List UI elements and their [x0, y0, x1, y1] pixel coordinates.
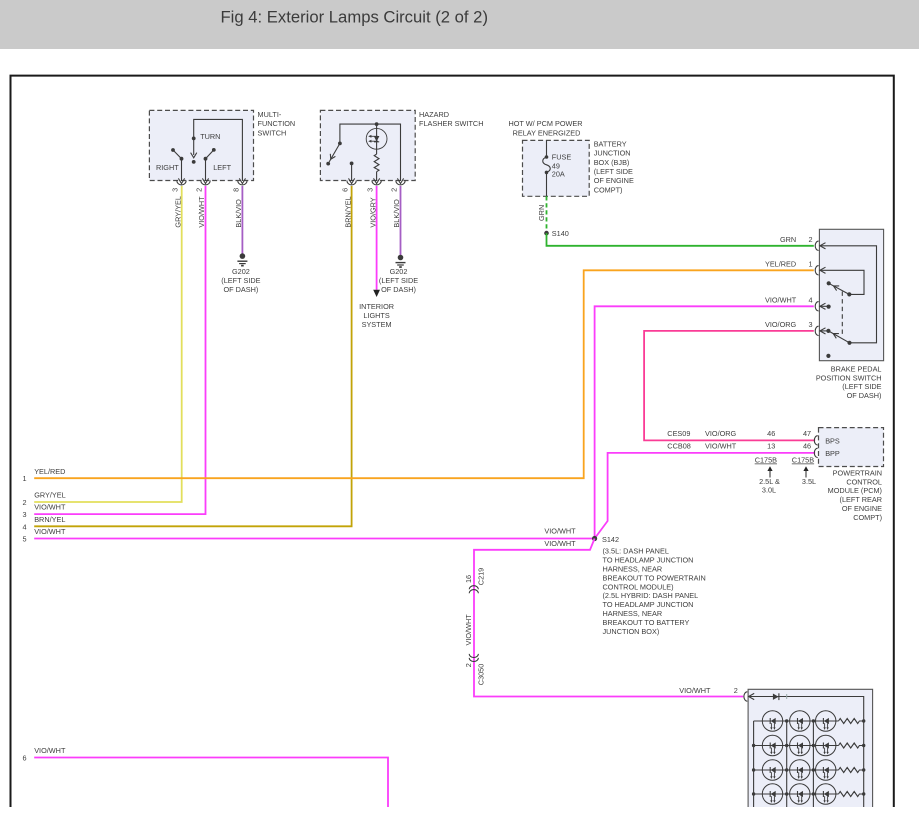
- svg-text:VIO/WHT: VIO/WHT: [705, 441, 737, 450]
- svg-text:CCB08: CCB08: [667, 441, 691, 450]
- LED row 2 wire: [754, 745, 839, 747]
- connector C175B (3.5L): [792, 456, 816, 486]
- svg-text:S140: S140: [552, 229, 569, 238]
- svg-text:6: 6: [341, 188, 350, 192]
- wire VIO/WHT from BPS pin 4 to S142: [595, 306, 814, 538]
- svg-text:BATTERY: BATTERY: [594, 139, 627, 148]
- hazard indicator LED: [366, 124, 387, 154]
- title bar: [0, 0, 919, 49]
- multi-function switch internal wiring: [191, 119, 246, 183]
- svg-text:VIO/WHT: VIO/WHT: [679, 686, 711, 695]
- tail lamp assembly box: [748, 689, 873, 807]
- svg-text:HARNESS, NEAR: HARNESS, NEAR: [603, 609, 663, 618]
- svg-text:HOT W/ PCM POWER: HOT W/ PCM POWER: [508, 119, 582, 128]
- svg-text:MODULE (PCM): MODULE (PCM): [828, 486, 882, 495]
- svg-text:GRN: GRN: [537, 205, 546, 221]
- svg-text:HARNESS, NEAR: HARNESS, NEAR: [603, 564, 663, 573]
- svg-text:OF DASH): OF DASH): [223, 285, 258, 294]
- node 3 label VIO/WHT: [22, 503, 66, 519]
- svg-text:BPP: BPP: [825, 449, 840, 458]
- svg-text:46: 46: [803, 441, 811, 450]
- BPS pin 4: [815, 302, 825, 311]
- powertrain control module box: [819, 428, 884, 522]
- svg-text:VIO/WHT: VIO/WHT: [197, 196, 206, 228]
- wire VIO/GRY from hazard pin 3: [368, 186, 377, 290]
- resistor R4: [839, 792, 864, 797]
- LED row 3 col 1: [762, 760, 782, 780]
- svg-text:2: 2: [22, 498, 26, 507]
- svg-text:3: 3: [22, 510, 26, 519]
- svg-text:CONTROL MODULE): CONTROL MODULE): [603, 582, 674, 591]
- svg-text:BLK/VIO: BLK/VIO: [234, 199, 243, 228]
- svg-text:COMPT): COMPT): [594, 185, 623, 194]
- tail lamp feed wire: [750, 697, 864, 808]
- svg-text:2: 2: [195, 188, 204, 192]
- column bus 1: [786, 721, 788, 807]
- svg-text:BREAKOUT TO POWERTRAIN: BREAKOUT TO POWERTRAIN: [603, 573, 706, 582]
- svg-text:YEL/RED: YEL/RED: [34, 467, 65, 476]
- svg-text:1: 1: [22, 474, 26, 483]
- svg-text:3: 3: [808, 320, 812, 329]
- multi-function switch pin 8: [232, 181, 248, 192]
- svg-text:OF ENGINE: OF ENGINE: [842, 504, 882, 513]
- BPS pin 2: [815, 241, 825, 250]
- svg-text:S142: S142: [602, 535, 619, 544]
- LED row 4 col 1: [762, 784, 782, 804]
- junction dots row 4: [752, 792, 866, 795]
- svg-text:(3.5L: DASH PANEL: (3.5L: DASH PANEL: [603, 547, 669, 556]
- svg-text:SYSTEM: SYSTEM: [362, 320, 392, 329]
- wire BLK/VIO from hazard pin 2: [392, 186, 401, 258]
- LED row 2 col 2: [790, 735, 810, 755]
- svg-text:TO HEADLAMP JUNCTION: TO HEADLAMP JUNCTION: [603, 600, 694, 609]
- turn switch LEFT contact: [202, 148, 231, 184]
- wire VIO/WHT from S142 to PCM BPP pin: [595, 441, 816, 538]
- svg-text:VIO/WHT: VIO/WHT: [765, 296, 797, 305]
- svg-text:VIO/WHT: VIO/WHT: [34, 503, 66, 512]
- svg-text:LIGHTS: LIGHTS: [363, 311, 389, 320]
- svg-text:POWERTRAIN: POWERTRAIN: [833, 468, 882, 477]
- BPS internal wiring: [821, 246, 877, 358]
- multi-function switch box: [149, 110, 295, 181]
- wire VIO/WHT (circuit 6): [22, 746, 388, 807]
- svg-text:(LEFT REAR: (LEFT REAR: [840, 495, 882, 504]
- hazard switch center contact: [349, 162, 355, 184]
- svg-text:BLK/VIO: BLK/VIO: [392, 199, 401, 228]
- node 2 label GRY/YEL: [22, 491, 65, 507]
- hazard switch pin 2: [390, 181, 406, 192]
- fuse 49 20A: [543, 140, 572, 196]
- svg-text:GRY/YEL: GRY/YEL: [173, 196, 182, 228]
- LED row 1 col 3: [816, 711, 836, 731]
- wire YEL/RED (circuit 1): [22, 260, 813, 484]
- ground G202 (left): [221, 253, 260, 294]
- splice S140: [544, 229, 569, 238]
- svg-text:SWITCH: SWITCH: [258, 128, 287, 137]
- S142 location note: [603, 547, 706, 637]
- svg-text:5: 5: [22, 535, 26, 544]
- svg-text:BOX (BJB): BOX (BJB): [594, 158, 630, 167]
- wire VIO/WHT (circuit 5) to S142: [22, 527, 592, 544]
- svg-text:OF ENGINE: OF ENGINE: [594, 176, 634, 185]
- svg-text:COMPT): COMPT): [853, 513, 882, 522]
- svg-text:(LEFT SIDE: (LEFT SIDE: [379, 276, 418, 285]
- svg-text:TO HEADLAMP JUNCTION: TO HEADLAMP JUNCTION: [603, 555, 694, 564]
- svg-text:RIGHT: RIGHT: [156, 163, 179, 172]
- svg-text:(LEFT SIDE: (LEFT SIDE: [594, 167, 633, 176]
- connector C175B (2.5L): [755, 456, 780, 495]
- svg-text:20A: 20A: [552, 170, 565, 179]
- junction dots row 3: [752, 768, 866, 771]
- resistor R1: [839, 719, 864, 724]
- LED row 4 wire: [754, 793, 839, 795]
- LED row 2 col 1: [762, 735, 782, 755]
- LED row 2 col 3: [816, 735, 836, 755]
- resistor R3: [839, 768, 864, 773]
- svg-text:8: 8: [232, 188, 241, 192]
- hazard flasher switch box: [320, 110, 483, 181]
- svg-text:13: 13: [767, 441, 775, 450]
- svg-text:C175B: C175B: [792, 456, 814, 465]
- svg-text:(LEFT SIDE: (LEFT SIDE: [842, 382, 881, 391]
- junction dots row 2: [752, 744, 866, 747]
- svg-text:VIO/WHT: VIO/WHT: [544, 539, 576, 548]
- resistor R2: [839, 743, 864, 748]
- svg-text:OF DASH): OF DASH): [381, 285, 416, 294]
- svg-text:BRN/YEL: BRN/YEL: [343, 196, 352, 227]
- PCM pin BPS: [814, 436, 840, 446]
- svg-text:(LEFT SIDE: (LEFT SIDE: [221, 276, 260, 285]
- svg-text:VIO/ORG: VIO/ORG: [765, 320, 797, 329]
- turn switch RIGHT contact: [156, 148, 185, 184]
- svg-text:BREAKOUT TO BATTERY: BREAKOUT TO BATTERY: [603, 618, 690, 627]
- svg-text:3: 3: [366, 188, 375, 192]
- wire VIO/WHT from MFS pin 2: [34, 186, 206, 514]
- svg-text:C3050: C3050: [476, 664, 485, 686]
- PCM pin BPP: [814, 448, 840, 458]
- svg-text:G202: G202: [390, 267, 408, 276]
- junction tick on feed wire: [786, 694, 788, 699]
- svg-text:YEL/RED: YEL/RED: [765, 260, 796, 269]
- svg-text:Fig 4: Exterior Lamps Circuit: Fig 4: Exterior Lamps Circuit (2 of 2): [221, 9, 489, 27]
- BPS pin 1: [815, 266, 825, 275]
- svg-text:6: 6: [22, 754, 26, 763]
- wire BRN/YEL from hazard pin 6: [34, 186, 352, 526]
- BPS pin 3: [815, 326, 825, 335]
- svg-text:FUNCTION: FUNCTION: [258, 119, 296, 128]
- tail lamp pin labels: [679, 686, 738, 695]
- left bus of LED array: [753, 721, 755, 807]
- svg-text:2: 2: [808, 235, 812, 244]
- column bus 2: [812, 721, 814, 807]
- LED row 3 col 2: [790, 760, 810, 780]
- svg-text:POSITION SWITCH: POSITION SWITCH: [816, 373, 882, 382]
- svg-text:C219: C219: [476, 568, 485, 585]
- svg-text:OF DASH): OF DASH): [847, 391, 882, 400]
- connector C3050: [464, 654, 485, 685]
- battery junction box: [523, 139, 634, 196]
- svg-text:FLASHER SWITCH: FLASHER SWITCH: [419, 119, 483, 128]
- diode D1: [773, 693, 779, 700]
- LED row 1 wire: [754, 720, 839, 722]
- LED row 1 col 2: [790, 711, 810, 731]
- arrow to interior lights system: [359, 290, 394, 329]
- svg-text:3.5L: 3.5L: [802, 477, 816, 486]
- hot label: [508, 119, 582, 137]
- svg-text:47: 47: [803, 429, 811, 438]
- svg-text:LEFT: LEFT: [213, 163, 231, 172]
- svg-text:VIO/WHT: VIO/WHT: [464, 614, 473, 646]
- hazard flasher resistor: [374, 154, 380, 184]
- connector C219: [464, 568, 485, 593]
- svg-text:GRY/YEL: GRY/YEL: [34, 491, 65, 500]
- wire GRN dashed below fuse: [537, 196, 546, 233]
- svg-text:16: 16: [464, 575, 473, 583]
- svg-text:RELAY ENERGIZED: RELAY ENERGIZED: [513, 128, 581, 137]
- LED row 4 col 2: [790, 784, 810, 804]
- svg-text:VIO/WHT: VIO/WHT: [544, 527, 576, 536]
- svg-text:MULTI-: MULTI-: [258, 110, 282, 119]
- svg-text:CES09: CES09: [667, 429, 690, 438]
- svg-text:3.0L: 3.0L: [762, 486, 776, 495]
- ground G202 (right): [379, 255, 418, 294]
- svg-text:JUNCTION BOX): JUNCTION BOX): [603, 627, 660, 636]
- svg-text:G202: G202: [232, 267, 250, 276]
- svg-text:INTERIOR: INTERIOR: [359, 302, 394, 311]
- svg-text:TURN: TURN: [200, 132, 220, 141]
- wire BLK/VIO from MFS pin 8: [234, 186, 243, 256]
- wire VIO/ORG from BPS pin 3 to PCM BPS pin: [644, 320, 815, 440]
- wire GRN to brake pedal switch pin 2: [547, 233, 814, 246]
- svg-text:2: 2: [734, 686, 738, 695]
- svg-text:3: 3: [171, 188, 180, 192]
- hazard switch pin 6: [341, 181, 357, 192]
- svg-text:FUSE: FUSE: [552, 153, 572, 162]
- svg-text:GRN: GRN: [780, 235, 796, 244]
- svg-text:VIO/GRY: VIO/GRY: [368, 197, 377, 227]
- svg-text:1: 1: [808, 260, 812, 269]
- node 4 label BRN/YEL: [22, 515, 65, 531]
- svg-text:JUNCTION: JUNCTION: [594, 149, 631, 158]
- svg-text:C175B: C175B: [755, 456, 777, 465]
- multi-function switch pin 3: [171, 181, 187, 192]
- svg-text:2.5L &: 2.5L &: [759, 477, 780, 486]
- svg-text:HAZARD: HAZARD: [419, 110, 449, 119]
- svg-text:4: 4: [22, 522, 26, 531]
- svg-text:CONTROL: CONTROL: [846, 477, 882, 486]
- brake pedal position switch box: [816, 229, 884, 400]
- LED row 3 wire: [754, 769, 839, 771]
- svg-text:BPS: BPS: [825, 436, 840, 445]
- svg-text:BRN/YEL: BRN/YEL: [34, 515, 65, 524]
- svg-text:VIO/WHT: VIO/WHT: [34, 527, 66, 536]
- svg-text:4: 4: [808, 296, 812, 305]
- hazard switch pin 3: [366, 181, 382, 192]
- svg-text:BRAKE PEDAL: BRAKE PEDAL: [831, 364, 882, 373]
- splice S142: [592, 535, 619, 544]
- wire VIO/WHT from S142 via C219 and C3050: [474, 539, 743, 697]
- LED row 3 col 3: [816, 760, 836, 780]
- hazard switch internal wiring: [326, 122, 403, 183]
- svg-text:(2.5L HYBRID: DASH PANEL: (2.5L HYBRID: DASH PANEL: [603, 591, 699, 600]
- svg-text:VIO/ORG: VIO/ORG: [705, 429, 737, 438]
- svg-text:2: 2: [464, 663, 473, 667]
- svg-text:2: 2: [390, 188, 399, 192]
- wire GRY/YEL from MFS pin 3: [34, 186, 182, 502]
- junction dots row 1: [785, 719, 865, 722]
- svg-text:46: 46: [767, 429, 775, 438]
- multi-function switch pin 2: [195, 181, 211, 192]
- LED row 1 col 1: [762, 711, 782, 731]
- LED row 4 col 3: [816, 784, 836, 804]
- svg-text:VIO/WHT: VIO/WHT: [34, 746, 66, 755]
- tail lamp pin 2: [744, 692, 754, 701]
